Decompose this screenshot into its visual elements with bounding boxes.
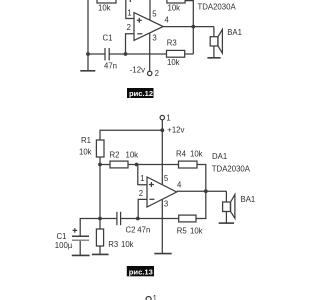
terminal 1 (cut) xyxy=(146,297,151,300)
ground under speaker xyxy=(213,46,215,58)
speaker BA1 xyxy=(210,37,218,46)
wire R1 bottom xyxy=(99,157,101,165)
wire stub top xyxy=(129,0,131,2)
wire noninverting net xyxy=(128,164,179,166)
wire pin 1 xyxy=(126,0,134,19)
svg-text:5: 5 xyxy=(164,174,169,183)
caption fig.13 xyxy=(127,266,154,276)
svg-text:+12v: +12v xyxy=(167,126,184,135)
caption fig.12 xyxy=(127,88,154,98)
wire pin 5 supply xyxy=(161,130,163,185)
svg-text:2: 2 xyxy=(155,69,159,78)
node +12v junction xyxy=(160,128,164,132)
node bias bottom junction xyxy=(98,217,102,221)
wire to C1 xyxy=(80,219,100,237)
wire inverting node horizontal xyxy=(109,53,166,55)
wire C2 left xyxy=(100,218,117,220)
svg-text:R3: R3 xyxy=(167,38,177,47)
wire R3 right vertical xyxy=(192,27,194,54)
plus input mark xyxy=(149,184,154,186)
resistor R1 xyxy=(96,140,104,157)
wire pin 2 xyxy=(126,34,135,54)
svg-text:10k: 10k xyxy=(168,3,181,12)
svg-text:1: 1 xyxy=(166,114,170,123)
svg-text:1: 1 xyxy=(153,294,157,300)
terminal 1 (+12v) xyxy=(160,115,164,119)
resistor R4 xyxy=(179,161,198,168)
svg-text:рис.12: рис.12 xyxy=(129,89,153,98)
svg-text:C1: C1 xyxy=(103,33,113,42)
wire to R2 xyxy=(100,164,110,166)
wire C1 left xyxy=(88,53,105,55)
svg-text:C2: C2 xyxy=(126,226,136,235)
svg-text:2: 2 xyxy=(127,23,131,32)
wire feedback R5 xyxy=(196,191,206,218)
wire inverting net xyxy=(121,218,179,220)
svg-text:R1: R1 xyxy=(81,136,91,145)
resistor 10k upper-right feedback (cut at top) xyxy=(167,0,185,3)
node junction at C1 ground side xyxy=(86,52,90,56)
ground under speaker xyxy=(225,212,227,223)
resistor R2 xyxy=(110,161,128,168)
node bias junction xyxy=(98,163,102,167)
svg-text:1: 1 xyxy=(127,8,131,17)
svg-text:2: 2 xyxy=(139,189,143,198)
svg-text:R3: R3 xyxy=(108,240,118,249)
svg-text:R2: R2 xyxy=(110,151,120,160)
node output junction xyxy=(191,25,195,29)
svg-text:10k: 10k xyxy=(190,149,203,158)
wire pin 3 ground xyxy=(161,199,163,253)
wire output xyxy=(177,190,227,192)
wire R4 to output xyxy=(197,165,206,192)
terminal -12v xyxy=(148,71,152,75)
plus input mark xyxy=(137,19,142,21)
svg-text:BA1: BA1 xyxy=(227,28,242,37)
wire R3 top xyxy=(99,219,101,230)
ground under C1 xyxy=(79,241,81,255)
svg-text:10k: 10k xyxy=(79,147,92,156)
ground xyxy=(87,54,89,71)
wire terminal down xyxy=(161,120,163,130)
wire pin 3 supply xyxy=(149,33,151,71)
node junction pin2 net xyxy=(124,52,128,56)
ground pin3 xyxy=(154,253,171,255)
svg-text:TDA2030A: TDA2030A xyxy=(198,3,237,12)
wire output xyxy=(163,26,214,28)
node output junction xyxy=(204,189,208,193)
wire +12v rail xyxy=(100,130,162,140)
wire ground branch vertical xyxy=(87,0,89,54)
capacitor C2 xyxy=(116,212,118,225)
capacitor C1 electrolytic xyxy=(72,235,89,237)
wire pin 1 xyxy=(138,165,147,185)
resistor R3 xyxy=(167,50,185,57)
capacitor C1 xyxy=(104,48,106,60)
svg-text:10k: 10k xyxy=(167,58,180,67)
wire feedback down xyxy=(185,1,193,27)
svg-text:рис.13: рис.13 xyxy=(129,268,153,277)
speaker BA1 xyxy=(223,202,231,212)
wire bias down xyxy=(99,165,101,219)
svg-text:10k: 10k xyxy=(121,240,134,249)
svg-text:BA1: BA1 xyxy=(241,195,256,204)
resistor R3 xyxy=(96,229,103,246)
svg-text:C1: C1 xyxy=(57,232,67,241)
op-amp DA1 triangle xyxy=(147,177,177,207)
svg-text:TDA2030A: TDA2030A xyxy=(212,165,251,174)
resistor 10k upper-left (cut at top) xyxy=(97,0,116,3)
node pin2 junction xyxy=(136,217,140,221)
svg-text:3: 3 xyxy=(152,34,156,43)
wire speaker drop xyxy=(213,27,215,37)
svg-text:R5: R5 xyxy=(177,226,188,235)
ground under R3 xyxy=(99,246,101,254)
wire pin 5 supply xyxy=(149,0,151,21)
minus input mark xyxy=(137,33,142,35)
svg-text:10k: 10k xyxy=(98,3,111,12)
node pin1 junction xyxy=(135,163,139,167)
plus polarity mark xyxy=(73,229,78,231)
svg-text:100µ: 100µ xyxy=(55,241,73,250)
wire speaker drop xyxy=(225,191,227,202)
wire pin 2 xyxy=(138,199,147,218)
svg-text:47n: 47n xyxy=(137,226,150,235)
svg-text:10k: 10k xyxy=(190,226,203,235)
svg-text:3: 3 xyxy=(164,199,168,208)
svg-text:1: 1 xyxy=(140,174,144,183)
svg-text:5: 5 xyxy=(152,10,157,19)
resistor R5 xyxy=(179,215,196,222)
minus input mark xyxy=(149,198,154,200)
svg-text:10k: 10k xyxy=(126,151,139,160)
svg-text:-12v: -12v xyxy=(130,65,145,74)
svg-text:R4: R4 xyxy=(176,149,187,158)
op-amp U1 TDA2030A triangle xyxy=(134,13,163,41)
svg-text:47n: 47n xyxy=(104,61,117,70)
svg-text:4: 4 xyxy=(177,180,182,189)
svg-text:DA1: DA1 xyxy=(212,152,227,161)
svg-text:4: 4 xyxy=(165,16,170,25)
